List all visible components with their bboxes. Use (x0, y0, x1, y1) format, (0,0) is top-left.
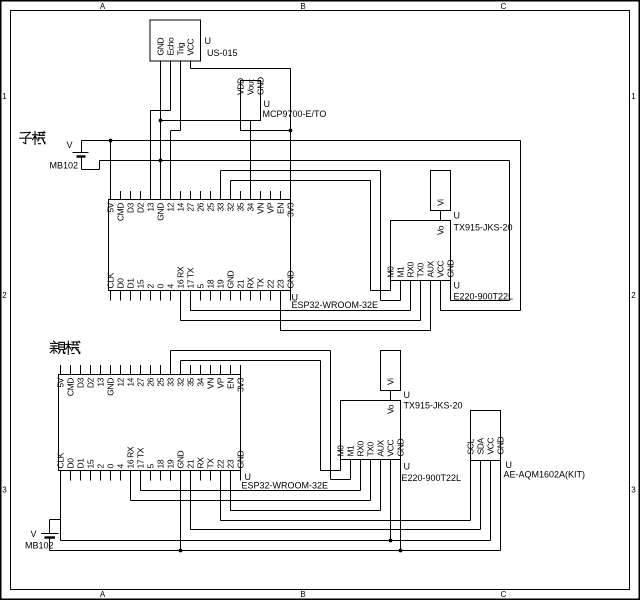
svg-text:17 TX: 17 TX (136, 447, 146, 468)
pin VCC LCD down to V+ rail (490, 461, 492, 541)
junction V+ rail / E220 VCC (lower) (389, 539, 393, 543)
wire to E220 GND (451, 300, 510, 302)
junction GND rail / GND pin column (159, 159, 163, 163)
svg-text:M1: M1 (396, 266, 406, 278)
microcontroller module U ESP32-WROOM-32E (upper) (106, 191, 296, 301)
svg-text:GND: GND (446, 260, 456, 278)
junction V+ rail / ESP32 5V (109, 139, 113, 143)
svg-text:GND: GND (106, 378, 116, 396)
svg-text:5V: 5V (56, 377, 66, 387)
svg-text:23: 23 (226, 459, 236, 468)
svg-text:5: 5 (196, 284, 206, 289)
wire ESP32 pin 33 to E220 M1 (lower) (170, 351, 172, 375)
wire ESP32 17 TX to E220 RX0 (lower) (140, 481, 142, 491)
wire ESP32 5V pin to V+ rail (110, 141, 112, 200)
wire V+ rail (lower) (61, 540, 491, 542)
svg-text:TX915-JKS-20: TX915-JKS-20 (454, 223, 513, 233)
svg-text:23: 23 (276, 279, 286, 288)
svg-text:5V: 5V (106, 202, 116, 212)
svg-text:V: V (31, 529, 37, 539)
wire ESP32 pin 23 to E220 AUX (lower) (230, 481, 232, 511)
svg-text:AE-AQM1602A(KIT): AE-AQM1602A(KIT) (504, 470, 586, 480)
svg-text:GND: GND (286, 271, 296, 289)
wire V+ rail down right side (520, 141, 522, 311)
antenna U TX915-JKS-20 (upper) (431, 171, 451, 211)
wire ESP32 pin 23 to E220 AUX (upper) (280, 301, 282, 331)
svg-text:19: 19 (216, 279, 226, 288)
svg-text:US-015: US-015 (207, 48, 238, 58)
wire US-015 VCC to ESP32 3V3 (190, 61, 192, 69)
svg-text:CLK: CLK (106, 272, 116, 288)
svg-text:Vout: Vout (246, 79, 256, 95)
wire battery plus to ESP32 5V and V+ rail (lower) (49, 520, 51, 534)
svg-text:TX915-JKS-20: TX915-JKS-20 (404, 401, 463, 411)
svg-text:TX0: TX0 (366, 441, 376, 456)
svg-text:A: A (100, 590, 106, 599)
svg-text:D0: D0 (66, 458, 76, 469)
svg-text:TX0: TX0 (416, 262, 426, 277)
wire V+ rail (upper) (82, 140, 521, 142)
wire ESP32 pin 22 to LCD SCL (220, 481, 222, 521)
svg-text:15: 15 (136, 279, 146, 288)
wire ESP32 pin 32 to E220 M0 (upper) (230, 181, 232, 200)
svg-text:V: V (67, 140, 73, 150)
pin GND LCD down to GND rail (500, 461, 502, 551)
svg-text:MB102: MB102 (50, 161, 79, 171)
svg-text:4: 4 (116, 464, 126, 469)
label 子機 (child unit) (20, 132, 45, 145)
battery / power supply V MB102 (lower) (41, 533, 59, 535)
svg-text:14: 14 (176, 202, 186, 211)
svg-text:EN: EN (276, 203, 286, 214)
svg-text:SDA: SDA (476, 437, 486, 454)
svg-text:ESP32-WROOM-32E: ESP32-WROOM-32E (242, 481, 329, 491)
svg-text:GND: GND (396, 439, 406, 457)
wire GND rail down right side (509, 161, 511, 301)
svg-text:U: U (454, 211, 461, 221)
svg-text:32: 32 (226, 202, 236, 211)
svg-text:18: 18 (156, 459, 166, 468)
svg-text:34: 34 (196, 377, 206, 386)
svg-text:0: 0 (106, 464, 116, 469)
svg-text:TX: TX (256, 278, 266, 289)
svg-text:32: 32 (176, 377, 186, 386)
svg-text:19: 19 (166, 459, 176, 468)
svg-text:U: U (264, 99, 271, 109)
pin GND E220 down to GND rail (lower) (400, 460, 402, 551)
wire ESP32 16 RX to E220 TX0 (upper) (180, 301, 182, 321)
svg-text:B: B (300, 590, 305, 599)
junction VCC line / MCP9700 VDD (289, 129, 293, 133)
svg-text:SCL: SCL (466, 438, 476, 454)
svg-text:GND: GND (226, 271, 236, 289)
svg-text:A: A (100, 2, 106, 11)
svg-text:E220-900T22L: E220-900T22L (402, 473, 462, 483)
svg-text:2: 2 (146, 284, 156, 289)
svg-text:CMD: CMD (116, 203, 126, 221)
svg-text:GND: GND (236, 451, 246, 469)
svg-text:C: C (501, 590, 507, 599)
pin GND E220 (upper) (450, 281, 452, 301)
svg-text:U: U (404, 390, 411, 400)
svg-text:18: 18 (206, 279, 216, 288)
wire TX915 Vi to E220 Vo (lower) (390, 391, 392, 401)
svg-text:35: 35 (236, 202, 246, 211)
svg-text:D3: D3 (76, 377, 86, 388)
junction GND rail / E220 GND (lower) (399, 549, 403, 553)
svg-text:Vo: Vo (436, 225, 446, 235)
svg-text:M1: M1 (346, 445, 356, 457)
svg-text:CLK: CLK (56, 452, 66, 468)
svg-text:C: C (501, 2, 507, 11)
svg-text:13: 13 (146, 202, 156, 211)
svg-text:RX0: RX0 (356, 440, 366, 456)
svg-text:2: 2 (631, 291, 636, 300)
svg-text:VP: VP (216, 377, 226, 388)
svg-text:M0: M0 (336, 445, 346, 457)
pin VCC E220 down to V+ rail (lower) (390, 460, 392, 541)
svg-text:GND: GND (256, 77, 266, 95)
svg-text:13: 13 (96, 377, 106, 386)
LCD module U AE-AQM1602A(KIT) (471, 411, 501, 461)
wire TX915 Vi to E220 Vo (upper) (440, 211, 442, 221)
svg-text:VCC: VCC (186, 38, 196, 55)
svg-text:VN: VN (256, 203, 266, 214)
LoRa module U E220-900T22L (lower) (341, 401, 401, 460)
svg-text:33: 33 (166, 377, 176, 386)
wire US-015 GND to ESP32 GND (160, 61, 162, 200)
wire ESP32 pin 33 to E220 M1 (upper) (220, 171, 222, 200)
wire ESP32 16 RX to E220 TX0 (lower) (130, 481, 132, 501)
svg-text:D1: D1 (76, 458, 86, 469)
svg-text:2: 2 (2, 291, 7, 300)
svg-text:4: 4 (166, 284, 176, 289)
svg-text:14: 14 (126, 377, 136, 386)
svg-text:VDD: VDD (236, 78, 246, 95)
svg-text:D2: D2 (86, 377, 96, 388)
svg-text:AUX: AUX (426, 260, 436, 277)
svg-text:12: 12 (166, 202, 176, 211)
svg-text:34: 34 (246, 202, 256, 211)
svg-text:22: 22 (266, 279, 276, 288)
svg-text:U: U (404, 462, 411, 472)
wire US-015 Echo to ESP32 pin 13 (170, 61, 172, 111)
svg-text:D0: D0 (116, 278, 126, 289)
svg-text:5: 5 (146, 464, 156, 469)
svg-text:2: 2 (96, 464, 106, 469)
svg-text:TX: TX (206, 458, 216, 469)
svg-text:ESP32-WROOM-32E: ESP32-WROOM-32E (292, 300, 379, 310)
svg-text:EN: EN (226, 378, 236, 389)
svg-text:Vi: Vi (386, 378, 396, 385)
svg-text:33: 33 (216, 202, 226, 211)
svg-text:VN: VN (206, 378, 216, 389)
svg-text:3: 3 (631, 486, 636, 495)
svg-text:GND: GND (496, 437, 506, 455)
pin VCC E220 (upper) (440, 281, 442, 311)
wire MCP9700 VDD (240, 121, 242, 131)
svg-text:VCC: VCC (386, 439, 396, 456)
svg-text:25: 25 (156, 377, 166, 386)
svg-text:1: 1 (631, 92, 636, 101)
svg-text:27: 27 (136, 377, 146, 386)
antenna U TX915-JKS-20 (lower) (381, 351, 401, 391)
svg-text:VP: VP (266, 202, 276, 213)
svg-text:RX: RX (246, 277, 256, 289)
svg-text:VCC: VCC (486, 437, 496, 454)
svg-text:CMD: CMD (66, 378, 76, 396)
wire ESP32 pin 32 to E220 M0 (lower) (180, 361, 182, 375)
svg-text:22: 22 (216, 459, 226, 468)
svg-text:26: 26 (146, 377, 156, 386)
svg-text:21: 21 (236, 279, 246, 288)
svg-text:AUX: AUX (376, 439, 386, 456)
wire GND rail (upper) (100, 160, 510, 162)
svg-text:3: 3 (2, 486, 7, 495)
svg-text:12: 12 (116, 377, 126, 386)
svg-text:D2: D2 (136, 202, 146, 213)
wire battery minus (81, 158, 83, 170)
wire battery plus to V+ rail (81, 141, 83, 153)
svg-text:16 RX: 16 RX (126, 446, 136, 468)
svg-text:Vo: Vo (386, 404, 396, 414)
svg-text:B: B (300, 2, 305, 11)
svg-text:D1: D1 (126, 278, 136, 289)
svg-text:15: 15 (86, 459, 96, 468)
svg-text:3V3: 3V3 (236, 377, 246, 392)
wire ESP32 pin 21 to LCD SDA (190, 481, 192, 530)
battery / power supply V MB102 (upper) (73, 152, 89, 154)
svg-text:U: U (205, 36, 212, 46)
svg-text:Trig: Trig (176, 42, 186, 55)
wire MCP9700 Vout to ESP32 pin 34 (250, 121, 252, 200)
svg-text:GND: GND (156, 203, 166, 221)
LoRa module U E220-900T22L (upper) (391, 221, 451, 281)
svg-text:Vi: Vi (436, 199, 446, 206)
svg-text:16 RX: 16 RX (176, 266, 186, 288)
svg-text:17 TX: 17 TX (186, 267, 196, 288)
svg-text:3V3: 3V3 (286, 202, 296, 217)
svg-text:D3: D3 (126, 202, 136, 213)
svg-text:27: 27 (186, 202, 196, 211)
wire ESP32 GND pin down to GND rail (lower) (180, 481, 182, 551)
svg-text:VCC: VCC (436, 260, 446, 277)
svg-text:25: 25 (206, 202, 216, 211)
svg-text:RX: RX (196, 457, 206, 469)
ultrasonic sensor U US-015 (150, 20, 201, 61)
svg-text:GND: GND (156, 38, 166, 56)
svg-text:U: U (506, 460, 513, 470)
svg-text:35: 35 (186, 377, 196, 386)
svg-text:M0: M0 (386, 266, 396, 278)
svg-text:RX0: RX0 (406, 261, 416, 277)
temperature sensor U MCP9700-E/TO (241, 81, 261, 121)
junction GND rail / ESP32 GND (lower) (179, 549, 183, 553)
svg-text:1: 1 (2, 92, 7, 101)
wire ESP32 17 TX to E220 RX0 (upper) (190, 301, 192, 311)
junction US-015 GND / MCP9700 GND branch (159, 119, 163, 123)
svg-text:0: 0 (156, 284, 166, 289)
wire MCP9700 GND branch (161, 120, 261, 122)
microcontroller module U ESP32-WROOM-32E (lower) (56, 365, 246, 481)
wire GND rail (lower) (50, 550, 501, 552)
wire US-015 Trig to ESP32 pin 12 (180, 61, 182, 131)
svg-text:GND: GND (176, 451, 186, 469)
svg-text:26: 26 (196, 202, 206, 211)
svg-text:U: U (454, 281, 461, 291)
wire battery minus to GND rail (lower) (49, 539, 51, 551)
svg-text:MCP9700-E/TO: MCP9700-E/TO (263, 109, 327, 119)
label 親機 (parent unit) (50, 341, 80, 354)
svg-text:21: 21 (186, 459, 196, 468)
wire to E220 VCC (441, 310, 521, 312)
svg-text:Echo: Echo (166, 37, 176, 55)
